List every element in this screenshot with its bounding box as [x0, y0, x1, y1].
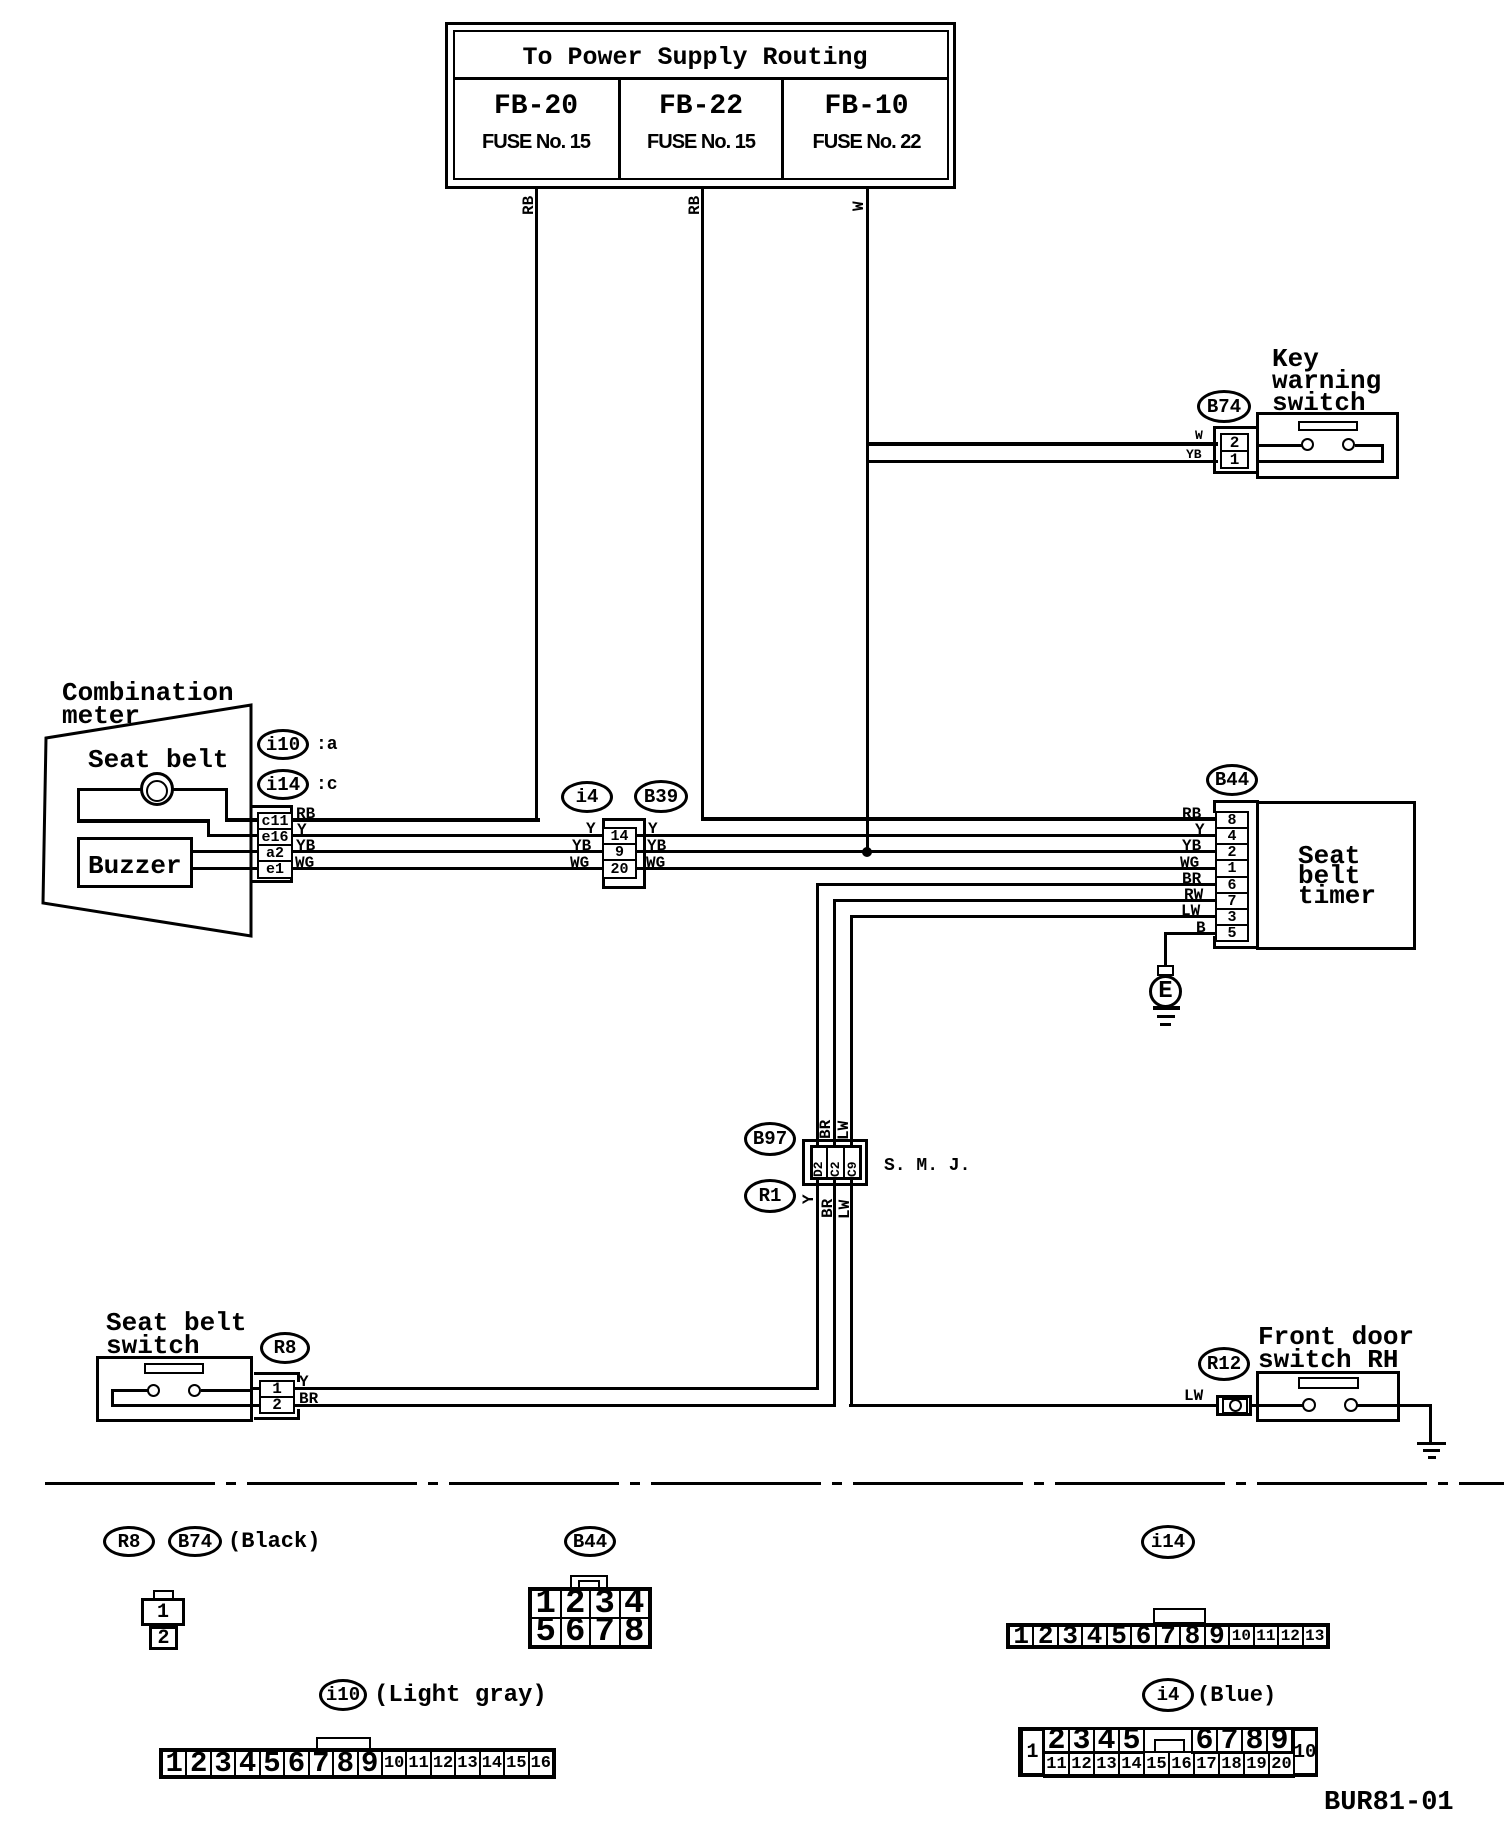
wire label Y left [586, 821, 596, 837]
B44 shell bottom [1213, 946, 1259, 949]
fuse table divider 2 [781, 77, 784, 180]
B44 cells pins 8,4,2,1,6,7,3,5 [1215, 811, 1249, 942]
wire LW vertical to SMJ [850, 915, 853, 1407]
buzzer box [77, 837, 193, 888]
seat belt timer label [1298, 846, 1376, 906]
ground wire vertical [1429, 1404, 1432, 1444]
pinout i4 pins 2-5 [1044, 1728, 1144, 1753]
seat belt switch internal wire right [201, 1389, 253, 1392]
seat belt switch label [106, 1312, 246, 1358]
wire RB from FB-22 vertical [701, 188, 704, 820]
wire label RB (rotated) [687, 196, 703, 215]
wire W from FB-10 vertical down to YB junction [866, 188, 869, 854]
front door switch contact circle right [1344, 1398, 1358, 1412]
connector B74 cells pins 2,1 [1220, 433, 1249, 469]
wire label BR [299, 1391, 318, 1407]
key warning switch body [1256, 412, 1399, 479]
i4/B39 shell bottom [602, 886, 646, 889]
fuse table divider 1 [618, 77, 621, 180]
meter connector cells c11,e16,a2,e1 [257, 812, 293, 879]
main wire row RB (meter side) [225, 818, 540, 822]
i4/B39 shell right [643, 818, 646, 889]
connector B74 ellipse [1197, 390, 1251, 423]
seat belt switch body [96, 1356, 253, 1422]
pinout i14 ellipse [1141, 1525, 1195, 1559]
pinout B44 ellipse [564, 1526, 616, 1557]
meter connector shell bottom [251, 880, 293, 883]
key warning switch label [1272, 348, 1381, 414]
wire B44 pin6 row BR [816, 883, 1220, 886]
ground E bars [1153, 1006, 1180, 1010]
connector B74 shell bottom [1213, 471, 1258, 474]
ground E neck [1157, 965, 1174, 976]
connector R12 pin circle [1229, 1399, 1242, 1412]
wire LW SMJ to front door switch [849, 1404, 1220, 1407]
connector B44 ellipse [1206, 764, 1258, 796]
pinout (Light gray) label [374, 1684, 547, 1708]
wire label W [1195, 429, 1203, 442]
wire label BR [1182, 871, 1201, 887]
connector R8 ellipse [260, 1332, 310, 1364]
lamp wire right vertical [225, 788, 228, 821]
fuse FB-10 label [784, 93, 949, 121]
wire label YB right [647, 838, 666, 854]
wire BR seat belt switch to SMJ [111, 1404, 836, 1407]
wire label YB [1186, 448, 1202, 461]
connector B74 shell left [1213, 426, 1216, 474]
wire label RB (rotated) [521, 196, 537, 215]
power supply routing box inner frame [453, 30, 949, 180]
seat belt switch slot [144, 1363, 204, 1374]
lamp wire right horizontal [172, 788, 228, 791]
ground E circle [1149, 975, 1182, 1008]
connector i4 ellipse [561, 781, 613, 813]
pinout i14 tab [1153, 1608, 1206, 1624]
key warning switch contact circle right [1342, 438, 1355, 451]
fuse table header separator [453, 77, 949, 80]
combination meter trapezoid body [0, 0, 300, 990]
wire label Y below SMJ (rotated) [801, 1194, 817, 1204]
connector B97 ellipse [744, 1122, 796, 1156]
pinout (Blue) label [1197, 1685, 1276, 1707]
pinout i4 pin 1 [1021, 1729, 1044, 1775]
ground symbol bars [1417, 1442, 1446, 1445]
pinout (Black) label [228, 1531, 320, 1553]
title: To Power Supply Routing [447, 45, 943, 70]
i10 :a label [316, 736, 338, 754]
wire label YB [296, 838, 315, 854]
seat belt timer box [1256, 801, 1416, 950]
wire label W (rotated) [851, 201, 867, 211]
main wire row YB [190, 850, 1218, 853]
seat belt switch internal wire bottom [111, 1404, 253, 1407]
front door switch label [1258, 1326, 1414, 1372]
connector R12 inner box [1222, 1398, 1248, 1414]
fuse FB-10 FUSE No. 22 [784, 132, 949, 152]
wire YB horizontal from key warning switch pin 1 [866, 460, 1218, 463]
front door switch internal wire left [1252, 1404, 1304, 1407]
combination meter label [62, 682, 234, 728]
pinout i10 tab [316, 1737, 371, 1750]
wire label BR below SMJ (rotated) [820, 1199, 836, 1218]
B44 shell top [1213, 800, 1259, 803]
pinout R8/B74 pin 2 [149, 1626, 178, 1650]
fuse FB-20 label [453, 93, 619, 121]
connector R1 ellipse [744, 1179, 796, 1213]
pinout R8/B74 pin 1 [141, 1598, 185, 1626]
R8 shell top [254, 1372, 300, 1375]
connector i10 ellipse [257, 729, 309, 760]
pinout i4 pin 10 [1293, 1729, 1317, 1775]
fuse FB-20 FUSE No. 15 [453, 132, 619, 152]
wire label RW [1184, 887, 1203, 903]
key warning switch internal wire right contact loop [1355, 444, 1384, 447]
main wire row Y [207, 834, 1218, 837]
pinout R8 ellipse [103, 1526, 155, 1557]
SMJ outer shell [802, 1139, 868, 1186]
i4/B39 cells pins 14,9,20 [602, 827, 637, 879]
wire label WG right [646, 855, 665, 871]
wire label Y [299, 1374, 309, 1390]
pinout i10 ellipse [319, 1679, 367, 1711]
front door switch slot [1298, 1377, 1359, 1389]
wire label BR above SMJ (rotated) [818, 1120, 834, 1139]
wire label LW above SMJ (rotated) [836, 1121, 852, 1140]
wire label LW [1184, 1388, 1203, 1404]
pinout i4 ellipse [1142, 1678, 1194, 1712]
S.M.J. label [884, 1157, 970, 1175]
power supply routing box outer frame [445, 22, 956, 189]
wire B44 pin3 row LW [850, 915, 1220, 918]
connector B39 ellipse [634, 780, 688, 813]
wire label YB [1182, 838, 1201, 854]
pinout R8/B74 tab [153, 1590, 174, 1600]
front door switch body [1256, 1371, 1400, 1422]
wire label RB [296, 806, 315, 822]
key warning switch contact circle left [1301, 438, 1314, 451]
fuse FB-22 label [621, 93, 781, 121]
R8 cells pins 1,2 [259, 1380, 295, 1414]
wire label Y right [648, 821, 658, 837]
YB junction dot [862, 847, 872, 857]
wire label LW below SMJ (rotated) [837, 1200, 853, 1219]
lamp wire lower horizontal [77, 819, 210, 823]
front door switch contact circle left [1302, 1398, 1316, 1412]
key warning switch slot [1298, 421, 1358, 431]
pinout i4 tab [1154, 1739, 1185, 1753]
connector R12 outer box [1216, 1395, 1252, 1416]
seat belt switch contact circle left [147, 1384, 160, 1397]
wire label WG left [570, 855, 589, 871]
wire label YB left [572, 838, 591, 854]
main wire row WG [190, 867, 1218, 870]
seat belt lamp label [88, 747, 228, 773]
separator dash-dot line [45, 1482, 1504, 1485]
pinout B44 tab [570, 1575, 608, 1589]
pinout i4 outer box [1018, 1727, 1318, 1777]
connector R12 ellipse [1198, 1347, 1250, 1381]
R8 shell bottom [254, 1417, 300, 1420]
wire BR vertical to SMJ [816, 883, 819, 1390]
wire label Y [1195, 822, 1205, 838]
BUR81-01 diagram code [1324, 1790, 1454, 1817]
wire label WG [1180, 855, 1199, 871]
i14 :c label [316, 776, 338, 794]
key warning switch internal wire pin2 to contact [1256, 444, 1303, 447]
seat belt lamp outer circle [140, 772, 174, 806]
pinout i4 pins 6-9 [1192, 1728, 1292, 1753]
i4/B39 shell top [602, 818, 646, 821]
seat belt switch contact circle right [188, 1384, 201, 1397]
wire label WG [295, 855, 314, 871]
wire label LW [1181, 903, 1200, 919]
wire W horizontal to key warning switch pin 2 [866, 442, 1218, 446]
meter connector shell top [251, 805, 293, 808]
SMJ cells D2,C2,C9 [810, 1145, 862, 1180]
fuse FB-22 FUSE No. 15 [621, 132, 781, 152]
pinout i14 grid pins 1-13 [1006, 1623, 1330, 1649]
seat belt lamp inner circle [146, 780, 168, 802]
wire Y seat belt switch to SMJ [253, 1387, 819, 1390]
wire label RB [1182, 806, 1201, 822]
main wire row RB (timer side) [701, 817, 1218, 821]
lamp wire left horizontal [78, 788, 143, 791]
wire label Y [297, 822, 307, 838]
pinout B44 grid pins 1-8 [528, 1587, 652, 1649]
pinout i4 pins 11-20 [1044, 1752, 1294, 1777]
wire RB from FB-20 vertical [535, 188, 538, 821]
connector B74 shell top [1213, 426, 1258, 429]
connector i14 ellipse [257, 769, 309, 800]
front door switch internal wire right [1357, 1404, 1432, 1407]
wire B44 pin7 row RW [833, 899, 1220, 902]
lamp wire left vertical [77, 788, 80, 822]
wire label B [1196, 920, 1206, 936]
pinout B74 ellipse [168, 1526, 222, 1557]
wire B44 pin5 to ground [1164, 932, 1220, 935]
pinout i10 grid pins 1-16 [159, 1748, 556, 1779]
wire RW vertical to SMJ [833, 899, 836, 1407]
seat belt switch internal wire left [111, 1389, 149, 1392]
lamp wire step down to Y row [207, 819, 210, 837]
buzzer label [88, 853, 182, 879]
